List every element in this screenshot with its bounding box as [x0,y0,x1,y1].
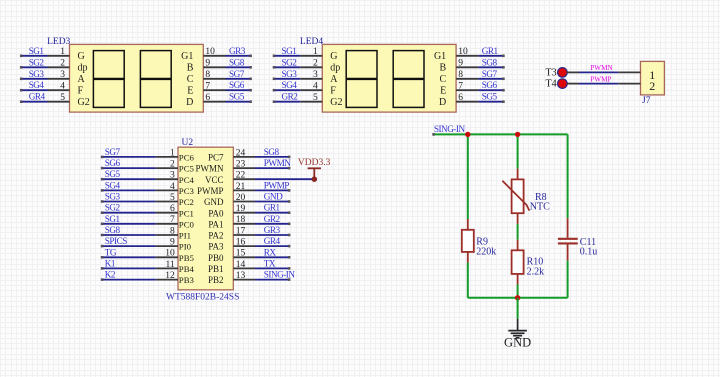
svg-text:G1: G1 [181,51,193,62]
U2 pin 13 [233,279,255,281]
wire end mark [101,189,104,192]
power port VDD3.3 stem [313,168,315,179]
wire end mark [20,78,23,81]
svg-text:PWMN: PWMN [195,164,224,174]
svg-text:SG5: SG5 [229,92,245,102]
junction dot bottom [515,295,520,300]
wire end mark [288,267,291,270]
svg-text:PC1: PC1 [179,208,194,218]
svg-text:9: 9 [170,238,175,248]
LED3 digit 2 outline [140,51,171,108]
LED3 pin 1 wire [20,55,47,57]
svg-text:8: 8 [205,70,210,80]
svg-text:G2: G2 [330,97,342,108]
U2 pin 11 [156,267,178,269]
svg-text:PC7: PC7 [208,153,224,163]
LED3 digit 1 middle bar [93,78,124,80]
wire end mark [288,256,291,259]
wire end mark [502,55,505,58]
U2 pin 19 wire [255,212,290,214]
wire end mark [502,100,505,103]
test point pin T3 [567,71,579,73]
wire middle branch upper [517,134,519,168]
LED4 pin 1 wire [273,55,300,57]
U2 pin 2 [156,167,178,169]
svg-text:9: 9 [458,59,463,69]
wire left branch upper [467,134,469,219]
svg-text:5: 5 [60,93,65,103]
svg-text:5: 5 [170,193,175,203]
svg-text:PI1: PI1 [179,231,191,241]
junction dot top left [465,132,470,137]
svg-text:13: 13 [236,271,246,281]
svg-text:SG8: SG8 [229,57,245,67]
wire right branch lower [567,261,569,298]
svg-text:12: 12 [165,271,175,281]
wire end mark [101,256,104,259]
wire end mark [249,66,252,69]
U2 pin 4 [156,189,178,191]
LED3 pin 7 [203,89,225,91]
U2 pin 15 [233,256,255,258]
svg-text:8: 8 [170,226,175,236]
svg-text:J7: J7 [642,96,651,106]
svg-text:SG3: SG3 [29,69,45,79]
wire end mark [101,211,104,214]
svg-text:VDD3.3: VDD3.3 [298,158,331,168]
svg-text:WT588F02B-24SS: WT588F02B-24SS [166,293,239,303]
power port VDD3.3 bar [308,167,321,169]
wire end mark [288,211,291,214]
LED4 pin 8 [456,78,478,80]
svg-text:SG6: SG6 [105,158,121,168]
U2 pin 12 [156,279,178,281]
svg-text:SG4: SG4 [29,80,45,90]
svg-text:5: 5 [313,93,318,103]
svg-text:24: 24 [236,148,246,158]
wire end mark [288,223,291,226]
LED3 pin 7 wire [226,89,252,91]
svg-text:PB0: PB0 [208,253,224,263]
U2 pin 5 wire [101,201,156,203]
wire middle branch lower [517,285,519,298]
svg-text:SG6: SG6 [482,80,498,90]
LED4 pin 1 [300,55,322,57]
svg-text:SG5: SG5 [105,169,121,179]
LED3 pin 10 wire [226,55,252,57]
svg-text:3: 3 [170,171,175,181]
LED3 pin 9 [203,66,225,68]
svg-text:4: 4 [170,182,175,192]
LED4 pin 2 wire [273,66,300,68]
svg-text:NTC: NTC [530,201,550,212]
svg-text:6: 6 [170,204,175,214]
svg-text:PB1: PB1 [208,264,224,274]
svg-text:2: 2 [60,59,65,69]
U2 pin 20 [233,201,255,203]
LED4 pin 3 [300,78,322,80]
U2 pin 3 [156,178,178,180]
U2 pin 15 wire [255,256,290,258]
svg-text:B: B [187,63,194,74]
test point T4 [558,79,568,89]
junction dot top middle [515,132,520,137]
wire end mark [20,55,23,58]
U2 pin 14 [233,267,255,269]
LED3 pin 1 [48,55,70,57]
U2 pin 11 wire [101,267,156,269]
svg-text:15: 15 [236,249,246,259]
connector J7 body [641,61,665,95]
svg-text:SG2: SG2 [29,57,45,67]
svg-text:3: 3 [313,70,318,80]
U2 pin 7 [156,223,178,225]
LED3 digit 2 middle bar [140,78,171,80]
U2 pin 10 [156,256,178,258]
wire end mark [273,89,276,92]
svg-text:PB4: PB4 [179,264,195,274]
svg-text:PB5: PB5 [179,253,195,263]
U2 pin 10 wire [101,256,156,258]
svg-text:SG7: SG7 [229,69,245,79]
svg-text:TG: TG [105,247,117,257]
svg-text:RX: RX [264,247,277,257]
wire end mark [101,234,104,237]
svg-text:10: 10 [165,249,175,259]
LED4 pin 5 wire [273,101,300,103]
svg-text:D: D [186,97,193,108]
svg-text:B: B [440,63,447,74]
svg-text:dp: dp [78,63,88,74]
svg-text:18: 18 [236,215,246,225]
svg-text:SG3: SG3 [282,69,298,79]
wire end mark [502,89,505,92]
LED4 pin 10 wire [478,55,504,57]
svg-text:6: 6 [458,93,463,103]
U2 pin 22 wire to VDD3.3 [255,178,314,180]
svg-text:T4: T4 [545,79,556,90]
svg-text:LED4: LED4 [300,37,323,47]
wire between R8 and R10 [517,224,519,240]
U2 pin 6 wire [101,212,156,214]
LED4 digit 2 outline [393,51,424,108]
LED3 digit 1 outline [93,51,124,108]
LED3 pin 2 [48,66,70,68]
svg-text:LED3: LED3 [47,37,70,47]
U2 pin 17 [233,234,255,236]
svg-text:SG7: SG7 [482,69,498,79]
LED4 pin 5 [300,101,322,103]
LED3 pin 4 wire [20,89,47,91]
svg-text:A: A [78,74,86,85]
U2 pin 8 wire [101,234,156,236]
wire end mark [101,267,104,270]
svg-text:G: G [330,51,337,62]
svg-text:SG7: SG7 [105,147,121,157]
svg-text:7: 7 [205,82,210,92]
U2 pin 3 wire [101,178,156,180]
U2 pin 23 wire [255,167,290,169]
svg-text:SING-IN: SING-IN [434,124,466,134]
U2 pin 8 [156,234,178,236]
svg-text:PB3: PB3 [179,275,195,285]
LED3 pin 6 wire [226,101,252,103]
LED4 pin 3 wire [273,78,300,80]
wire end mark [20,89,23,92]
junction dot VDD3.3 [312,176,318,182]
svg-text:9: 9 [205,59,210,69]
wire end mark [20,100,23,103]
svg-text:1: 1 [60,47,65,57]
svg-text:1: 1 [313,47,318,57]
LED3 pin 4 [48,89,70,91]
svg-text:8: 8 [458,70,463,80]
7-segment display LED3 body [70,44,204,112]
svg-text:PA3: PA3 [208,242,224,252]
LED3 pin 3 [48,78,70,80]
wire end mark [273,55,276,58]
svg-text:K1: K1 [105,258,116,268]
svg-text:17: 17 [236,226,246,236]
svg-text:7: 7 [170,215,175,225]
wire end mark [273,78,276,81]
LED3 pin 5 [48,101,70,103]
wire end mark [249,78,252,81]
svg-text:G2: G2 [78,97,90,108]
wire end mark [288,189,291,192]
svg-text:SG4: SG4 [282,80,298,90]
LED4 pin 4 wire [273,89,300,91]
U2 pin 6 [156,212,178,214]
LED3 pin 6 [203,101,225,103]
U2 pin 20 wire [255,201,290,203]
svg-text:PI0: PI0 [179,242,192,252]
svg-text:PB2: PB2 [208,275,224,285]
svg-text:PWMN: PWMN [264,158,291,168]
LED4 pin 9 [456,66,478,68]
U2 pin 9 [156,245,178,247]
U2 pin 5 [156,201,178,203]
svg-text:21: 21 [236,182,246,192]
svg-text:G: G [78,51,85,62]
svg-text:GR1: GR1 [264,203,281,213]
U2 pin 19 [233,212,255,214]
wire end mark [101,245,104,248]
svg-text:6: 6 [205,93,210,103]
U2 pin 14 wire [255,267,290,269]
svg-text:11: 11 [166,260,175,270]
wire end mark [288,156,291,159]
svg-text:VCC: VCC [205,175,224,185]
wire end mark [101,223,104,226]
svg-text:T3: T3 [545,68,556,79]
LED4 digit 1 outline [346,51,377,108]
svg-text:PA1: PA1 [208,219,223,229]
LED4 pin 9 wire [478,66,504,68]
svg-text:dp: dp [330,63,340,74]
U2 pin 24 [233,156,255,158]
U2 pin 22 [233,178,255,180]
wire left branch lower [467,263,469,298]
U2 pin 16 [233,245,255,247]
svg-text:20: 20 [236,193,246,203]
svg-text:PWMP: PWMP [197,186,224,196]
svg-text:GR3: GR3 [264,225,281,235]
wire end mark [249,89,252,92]
svg-text:F: F [78,86,84,97]
svg-text:PC0: PC0 [179,219,195,229]
U2 pin 2 wire [101,167,156,169]
svg-text:3: 3 [60,70,65,80]
LED4 pin 6 [456,101,478,103]
wire end mark [502,66,505,69]
thermistor R8 [517,169,519,180]
LED3 pin 8 [203,78,225,80]
LED4 digit 2 middle bar [393,78,424,80]
svg-text:10: 10 [205,47,215,57]
U2 pin 17 wire [255,234,290,236]
svg-text:2.2k: 2.2k [527,267,545,278]
svg-text:F: F [330,86,336,97]
svg-text:C: C [187,74,194,85]
svg-text:PA0: PA0 [208,208,224,218]
svg-text:U2: U2 [182,138,194,148]
U2 pin 16 wire [255,245,290,247]
J7 pin 2 [618,83,640,85]
svg-text:E: E [440,86,446,97]
U2 pin 18 [233,223,255,225]
test point pin T4 [567,83,579,85]
svg-text:PWMP: PWMP [590,75,611,83]
U2 pin 9 wire [101,245,156,247]
svg-text:PWMN: PWMN [590,64,613,72]
svg-text:2: 2 [313,59,318,69]
svg-text:SG4: SG4 [105,180,121,190]
wire PWMN [579,71,618,73]
svg-text:19: 19 [236,204,246,214]
wire end mark [101,167,104,170]
svg-text:GR2: GR2 [264,214,281,224]
svg-text:GR1: GR1 [482,46,499,56]
U2 pin 1 [156,156,178,158]
LED3 pin 3 wire [20,78,47,80]
wire end mark [249,100,252,103]
svg-text:SG1: SG1 [105,214,121,224]
svg-text:16: 16 [236,238,246,248]
svg-text:SG1: SG1 [29,46,45,56]
svg-text:PC6: PC6 [179,153,195,163]
LED4 pin 10 [456,55,478,57]
IC U2 body [178,147,233,290]
LED3 pin 2 wire [20,66,47,68]
LED3 pin 10 [203,55,225,57]
svg-text:PA2: PA2 [208,231,223,241]
svg-text:GND: GND [264,192,283,202]
LED4 pin 8 wire [478,78,504,80]
wire bottom [468,297,568,299]
svg-text:E: E [187,86,193,97]
LED4 pin 2 [300,66,322,68]
wire SING-IN top [433,133,567,135]
svg-text:4: 4 [313,82,318,92]
svg-text:GND: GND [504,336,531,350]
wire end mark [432,133,435,136]
svg-text:2: 2 [170,160,175,170]
LED4 pin 4 [300,89,322,91]
ground GND [517,319,519,331]
svg-text:PC4: PC4 [179,175,195,185]
U2 pin 18 wire [255,223,290,225]
wire end mark [273,100,276,103]
LED3 pin 9 wire [226,66,252,68]
svg-text:SG5: SG5 [482,92,498,102]
LED4 pin 7 wire [478,89,504,91]
svg-text:0.1u: 0.1u [580,247,598,258]
wire right branch upper [567,134,569,218]
wire end mark [288,278,291,281]
svg-text:10: 10 [458,47,468,57]
wire end mark [249,55,252,58]
svg-text:SG2: SG2 [282,57,298,67]
wire end mark [288,167,291,170]
U2 pin 21 wire [255,189,290,191]
U2 pin 12 wire [101,279,156,281]
svg-text:GR4: GR4 [264,236,281,246]
svg-text:SG6: SG6 [229,80,245,90]
svg-text:SG8: SG8 [264,147,280,157]
LED4 digit 1 middle bar [346,78,377,80]
wire end mark [288,200,291,203]
svg-text:220k: 220k [476,246,496,257]
J7 pin 1 [618,71,640,73]
wire end mark [502,78,505,81]
svg-text:SPICS: SPICS [105,236,127,246]
resistor R10 [517,240,519,251]
svg-text:A: A [330,74,338,85]
wire end mark [101,156,104,159]
svg-text:SG8: SG8 [482,57,498,67]
wire ground stem [517,298,519,319]
svg-text:PC3: PC3 [179,186,195,196]
U2 pin 21 [233,189,255,191]
svg-text:GR3: GR3 [229,46,246,56]
LED3 pin 5 wire [20,101,47,103]
svg-text:GR4: GR4 [29,92,46,102]
U2 pin 13 wire [255,279,290,281]
U2 pin 7 wire [101,223,156,225]
U2 pin 1 wire [101,156,156,158]
wire end mark [288,245,291,248]
svg-text:SG8: SG8 [105,225,121,235]
svg-text:PC2: PC2 [179,197,194,207]
svg-text:1: 1 [170,148,175,158]
wire PWMP [579,83,618,85]
LED4 pin 6 wire [478,101,504,103]
svg-text:22: 22 [236,171,246,181]
wire end mark [20,66,23,69]
U2 pin 24 wire [255,156,290,158]
svg-text:4: 4 [60,82,65,92]
svg-text:SING-IN: SING-IN [264,270,296,280]
svg-text:7: 7 [458,82,463,92]
resistor R9 [467,219,469,230]
U2 pin 4 wire [101,189,156,191]
svg-text:23: 23 [236,160,246,170]
svg-text:C: C [440,74,447,85]
7-segment display LED4 body [322,44,456,112]
svg-text:PC5: PC5 [179,164,195,174]
svg-text:2: 2 [649,79,655,93]
